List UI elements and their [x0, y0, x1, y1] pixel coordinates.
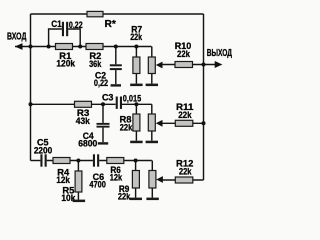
wire C4 to ground — [102, 128, 104, 143]
resistor R4 — [53, 158, 70, 185]
resistor R12 — [175, 158, 193, 183]
wire band2 left — [31, 103, 116, 105]
capacitor C3 — [102, 93, 141, 109]
resistor R6 — [107, 158, 124, 183]
node C2 tap — [114, 45, 118, 49]
wire C2 to ground — [115, 70, 117, 84]
wire pot3 drop — [151, 161, 153, 198]
wire right bus — [203, 14, 205, 180]
svg-text:36k: 36k — [89, 59, 101, 69]
wire R9 drop — [135, 161, 137, 198]
node R7 tap — [134, 45, 138, 49]
svg-text:0,22: 0,22 — [94, 78, 108, 88]
potentiometer band2 — [148, 114, 155, 131]
wire C1 branch right — [68, 29, 80, 47]
wire top bus — [31, 13, 204, 15]
svg-text:120k: 120k — [56, 59, 75, 69]
svg-text:12k: 12k — [56, 175, 70, 185]
wiper arrow band2 — [156, 120, 163, 127]
wire band1 line — [15, 46, 152, 48]
wire R5 drop — [77, 161, 79, 200]
svg-text:22k: 22k — [179, 166, 192, 176]
node R10/bus — [202, 63, 206, 67]
node C4 tap — [101, 102, 105, 106]
wire C2 drop — [115, 47, 117, 65]
svg-text:ВЫХОД: ВЫХОД — [207, 48, 233, 59]
wire R11 — [162, 122, 204, 124]
potentiometer band3 — [149, 171, 156, 189]
svg-text:2200: 2200 — [34, 145, 52, 155]
potentiometer band1 — [148, 57, 155, 74]
node band2 tap — [29, 102, 33, 106]
resistor R11 — [175, 102, 194, 126]
wire pot1 drop — [151, 47, 153, 84]
wiper arrow band3 — [156, 176, 163, 183]
wire band3 a — [47, 160, 93, 162]
resistor R* — [87, 11, 116, 29]
resistor R2 — [86, 44, 103, 69]
svg-text:22k: 22k — [177, 49, 190, 59]
wire band2 right — [122, 103, 152, 105]
resistor R8 — [120, 114, 140, 133]
svg-text:C1: C1 — [51, 19, 62, 30]
wire R12 — [163, 179, 204, 181]
wire R8 drop — [135, 104, 137, 140]
svg-text:0,015: 0,015 — [123, 93, 141, 103]
ground pot3 — [146, 198, 158, 201]
node C1 left — [47, 45, 51, 49]
svg-text:C3: C3 — [102, 93, 114, 104]
ground R8 — [130, 141, 142, 144]
node R5 tap — [76, 159, 80, 163]
capacitor C5 — [34, 138, 52, 167]
capacitor C1 — [51, 19, 83, 36]
wire R10 — [162, 64, 216, 66]
resistor R5 — [61, 171, 82, 203]
svg-text:43k: 43k — [76, 116, 90, 126]
svg-text:6800: 6800 — [78, 139, 97, 149]
wire band3 line — [31, 160, 41, 162]
resistor R1 — [56, 44, 76, 69]
node R11/bus — [202, 121, 206, 125]
capacitor C4 — [78, 123, 109, 149]
node input junction — [29, 45, 33, 49]
wire R7 drop — [135, 47, 137, 84]
ground C4 — [98, 142, 108, 144]
output arrow — [215, 61, 223, 68]
svg-text:22k: 22k — [130, 32, 142, 42]
resistor R7 — [130, 24, 142, 73]
resistor R9 — [118, 171, 140, 202]
wire pot2 drop — [151, 104, 153, 140]
wire C4 drop — [102, 104, 104, 123]
node R9 tap — [134, 159, 138, 163]
svg-text:22k: 22k — [120, 123, 133, 133]
ground pot2 — [146, 141, 158, 144]
node R1/R2 junction — [78, 45, 82, 49]
ground R7 — [130, 84, 142, 87]
wire left bus — [30, 14, 32, 161]
resistor R10 — [175, 41, 193, 68]
input arrow — [15, 43, 23, 50]
ground R9 — [130, 198, 142, 201]
ground pot1 — [146, 84, 158, 87]
ground C2 — [111, 84, 121, 86]
svg-text:4700: 4700 — [89, 179, 106, 189]
wire C1 branch left — [49, 29, 62, 47]
svg-text:ВХОД: ВХОД — [7, 31, 27, 42]
svg-text:22k: 22k — [178, 110, 191, 120]
node R8 tap — [134, 102, 138, 106]
svg-text:12k: 12k — [110, 172, 122, 182]
svg-text:22k: 22k — [118, 192, 130, 202]
resistor R3 — [75, 101, 92, 126]
wire band3 b — [99, 160, 152, 162]
capacitor C6 — [89, 154, 106, 189]
capacitor C2 — [94, 64, 122, 88]
ground R5 — [73, 200, 85, 203]
wiper arrow band1 — [156, 62, 163, 69]
svg-text:R*: R* — [105, 19, 116, 30]
